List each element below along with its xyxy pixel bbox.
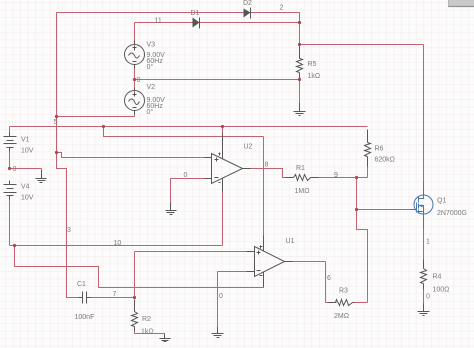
svg-text:1kΩ: 1kΩ — [308, 73, 321, 80]
ground battery node 0 — [36, 171, 47, 183]
svg-text:C1: C1 — [77, 281, 86, 288]
resistor R3 — [328, 300, 355, 306]
diode D1 — [193, 18, 200, 29]
wire +10 rail — [10, 126, 368, 128]
svg-text:R5: R5 — [308, 61, 317, 68]
wire net0 V3/V2 midpoint to R5 bottom — [135, 69, 300, 103]
wire U2 V- pin down to rail — [222, 192, 224, 246]
svg-text:R6: R6 — [375, 146, 384, 153]
svg-text:620kΩ: 620kΩ — [375, 157, 395, 164]
junction node5 V2 bottom — [55, 115, 58, 118]
svg-text:V3: V3 — [147, 42, 156, 49]
svg-text:100nF: 100nF — [75, 314, 95, 321]
junction rail10 U1 V- — [13, 244, 16, 247]
wire R6 bottom to node9 — [357, 167, 368, 178]
svg-text:10V: 10V — [21, 148, 34, 155]
svg-text:U1: U1 — [286, 238, 295, 245]
svg-text:0°: 0° — [147, 108, 154, 116]
junction net2 D1 — [298, 21, 301, 24]
junction node0 sources — [133, 78, 136, 81]
wire U1 output net6 to R3 left — [293, 262, 337, 303]
junction node7 — [133, 296, 136, 299]
svg-text:2MΩ: 2MΩ — [334, 313, 349, 320]
wire U2 output net8 to R1 — [251, 169, 286, 178]
wire rail jog to U1 V+ pin — [104, 127, 264, 236]
junction battery node0 — [8, 167, 11, 170]
svg-text:0: 0 — [184, 172, 188, 179]
battery V1 — [4, 133, 17, 152]
junction rail U2 V+ — [221, 125, 224, 128]
resistor R5 — [297, 47, 303, 79]
svg-text:0: 0 — [13, 166, 17, 173]
svg-text:10: 10 — [114, 240, 122, 247]
AC source V2 — [125, 88, 145, 115]
junction node5/3 split — [55, 151, 58, 154]
svg-text:100Ω: 100Ω — [433, 287, 450, 294]
wire node9 vertical — [356, 178, 358, 210]
wire net3 down to C1 — [57, 153, 79, 298]
svg-text:11: 11 — [155, 18, 162, 25]
wire U2 - input to ground — [171, 179, 205, 204]
op-amp U1 — [247, 236, 293, 288]
svg-text:9: 9 — [334, 172, 338, 179]
svg-text:R3: R3 — [339, 288, 348, 295]
wire net5 left vertical — [56, 13, 58, 153]
wire R2 bottom to ground — [135, 331, 165, 335]
svg-text:V4: V4 — [21, 184, 30, 191]
junction rail U1 V+ — [102, 125, 105, 128]
wire U1 - input net0 — [218, 272, 247, 328]
svg-text:R2: R2 — [142, 316, 151, 323]
ground R5 net0 — [294, 103, 306, 116]
svg-text:R4: R4 — [433, 274, 442, 281]
op-amp U2 — [205, 134, 251, 192]
battery V4 — [4, 181, 17, 200]
wire net7 C1 right to R2 top — [91, 297, 135, 299]
wire net5 step to U2 + input — [57, 153, 205, 158]
svg-text:6: 6 — [327, 275, 331, 282]
wire Q1 source to R4 — [423, 229, 425, 260]
wire R4 bottom to ground — [423, 290, 425, 305]
svg-text:U2: U2 — [244, 144, 253, 151]
svg-text:D2: D2 — [243, 0, 252, 7]
svg-text:R1: R1 — [296, 165, 305, 172]
resistor R1 — [286, 175, 319, 181]
svg-text:V1: V1 — [21, 137, 30, 144]
junction R5 bottom — [298, 78, 301, 81]
ground U2 minus input — [166, 203, 177, 215]
junction net2 drain branch — [298, 43, 301, 46]
svg-text:7: 7 — [113, 291, 117, 298]
wire rail to U1 V- pin — [15, 246, 264, 288]
wire V1 top lead — [9, 127, 11, 133]
svg-text:5: 5 — [54, 119, 58, 126]
wire net2 vertical — [299, 13, 301, 47]
svg-text:0°: 0° — [147, 63, 154, 71]
wire net5 top horizontal (D2 branch) — [57, 12, 300, 14]
resistor R4 — [421, 260, 427, 290]
wire V2 bottom to net5 — [57, 115, 135, 117]
svg-text:1kΩ: 1kΩ — [141, 329, 154, 336]
svg-text:V2: V2 — [147, 84, 156, 91]
ground U1 minus net0 — [212, 327, 224, 338]
ground R2 — [160, 334, 171, 342]
svg-text:1: 1 — [426, 239, 430, 246]
diode D2 — [244, 8, 251, 19]
wire net2 branch to Q1 drain — [300, 45, 424, 183]
resistor R6 — [365, 130, 371, 167]
wire net7 up to U1 + input — [135, 252, 247, 298]
svg-text:2N7000G: 2N7000G — [437, 210, 467, 217]
svg-text:2: 2 — [280, 5, 284, 12]
wire rail to U2 V+ pin — [222, 127, 224, 134]
wire V4 bottom to -10 rail — [10, 200, 223, 246]
svg-text:Q1: Q1 — [437, 198, 446, 205]
svg-text:1MΩ: 1MΩ — [295, 188, 310, 195]
wire battery midpoint node 0 — [10, 152, 42, 173]
MOSFET Q1 — [411, 182, 434, 229]
AC source V3 — [125, 41, 145, 69]
wire R1 right to node9 — [319, 177, 357, 179]
capacitor C1 — [79, 292, 91, 304]
svg-text:10V: 10V — [21, 195, 34, 202]
svg-text:D1: D1 — [191, 10, 200, 17]
wire node9 to R3 right — [355, 210, 368, 303]
svg-text:0: 0 — [426, 294, 430, 301]
svg-text:3: 3 — [67, 227, 71, 234]
junction node9 gate — [355, 208, 358, 211]
ground R4 — [418, 304, 430, 316]
wire gate of Q1 — [357, 209, 411, 211]
resistor R2 — [132, 300, 138, 331]
svg-text:8: 8 — [265, 162, 269, 169]
svg-text:0: 0 — [137, 77, 141, 84]
junction node9 R1 R6 — [355, 176, 358, 179]
svg-text:0: 0 — [219, 293, 223, 300]
wire net11 V3 top to D1 — [135, 23, 300, 41]
UI window fragment top-right corner — [448, 0, 474, 7]
